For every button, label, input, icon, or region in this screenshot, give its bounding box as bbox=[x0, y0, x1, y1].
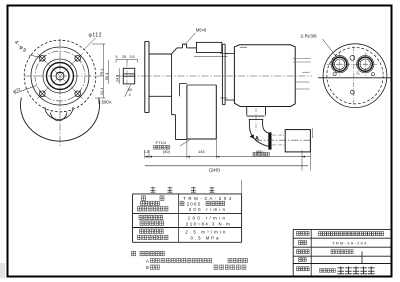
section mark A bbox=[250, 135, 255, 139]
svg-text:3.5: 3.5 bbox=[130, 55, 135, 59]
end-cap fins bbox=[293, 58, 311, 60]
exhaust label bbox=[253, 152, 256, 156]
spec table header bbox=[151, 187, 156, 192]
wire: 135deg centerline bbox=[37, 53, 83, 99]
title r3 value: date bbox=[331, 250, 335, 254]
svg-text:M5×8: M5×8 bbox=[196, 28, 207, 33]
flange outline (hidden, dashed) bbox=[24, 40, 96, 112]
svg-text:79.4: 79.4 bbox=[99, 68, 104, 76]
spec table frame bbox=[133, 193, 242, 195]
wire: 45deg centerline bbox=[37, 53, 83, 99]
body circle bbox=[31, 47, 89, 105]
table row 1 bbox=[142, 196, 146, 200]
table row 2 bbox=[141, 201, 145, 205]
svg-text:2-Rc3/8: 2-Rc3/8 bbox=[301, 34, 318, 39]
bolt centerlines bbox=[273, 134, 285, 136]
bottom boss arc outer bbox=[45, 107, 73, 119]
title block frame bbox=[293, 228, 390, 230]
small holes on chord bbox=[333, 73, 336, 76]
svg-text:(240): (240) bbox=[209, 167, 220, 172]
svg-text:1.5: 1.5 bbox=[144, 149, 149, 154]
table row 5 bbox=[140, 221, 144, 225]
svg-text:2.5 m³/min: 2.5 m³/min bbox=[185, 229, 227, 234]
wire: main horizontal centerline (side view) bbox=[117, 75, 312, 77]
title r4 divider bbox=[361, 252, 363, 264]
exhaust boss bbox=[246, 107, 248, 116]
svg-text:(40): (40) bbox=[163, 149, 171, 154]
detail leader 20 / 4 bbox=[125, 85, 131, 96]
svg-text:P.T1/4: P.T1/4 bbox=[156, 141, 166, 145]
title labels bbox=[297, 231, 301, 235]
svg-text:5: 5 bbox=[116, 55, 118, 59]
detail shaft rect bbox=[123, 68, 134, 84]
table row 6 bbox=[140, 229, 144, 233]
detail dim 59.4 bbox=[108, 60, 110, 84]
rear vertical centerline bbox=[353, 46, 355, 104]
svg-text:(85): (85) bbox=[256, 149, 264, 154]
dim line A bbox=[145, 156, 311, 158]
bolt hole 1 bbox=[40, 56, 46, 62]
svg-text:210~84.3 N·m: 210~84.3 N·m bbox=[186, 221, 231, 226]
svg-text:2065: 2065 bbox=[187, 202, 201, 207]
svg-text:25: 25 bbox=[122, 55, 126, 59]
oil case (lower rectangle) bbox=[186, 85, 188, 139]
gear case left edge bbox=[171, 54, 173, 115]
bottom boss arc inner bbox=[50, 113, 67, 121]
svg-text:0.5 MPa: 0.5 MPa bbox=[190, 236, 220, 241]
svg-text:φ112: φ112 bbox=[89, 33, 103, 39]
bottom profile steps bbox=[172, 114, 176, 116]
svg-text:4: 4 bbox=[129, 93, 131, 97]
bolt hole 2 bbox=[75, 56, 81, 62]
joint ring bbox=[221, 44, 223, 104]
top boss between ports bbox=[350, 56, 355, 61]
elbow flange top bbox=[247, 115, 265, 117]
svg-text:A: A bbox=[255, 136, 259, 142]
svg-text:.: . bbox=[325, 257, 326, 262]
svg-text:24.1: 24.1 bbox=[99, 87, 104, 95]
neck lines bbox=[225, 53, 234, 55]
detail vertical centerline bbox=[126, 62, 128, 88]
motor body outline bbox=[234, 45, 295, 107]
note line 1 bbox=[132, 251, 136, 256]
bottom small hole bbox=[351, 90, 355, 94]
gear case rear step bbox=[179, 84, 181, 97]
rear dashed circle bbox=[327, 47, 383, 103]
elbow pipe bbox=[248, 119, 250, 126]
shaft bore circle bbox=[51, 67, 69, 85]
node A: front view vertical centerline bbox=[59, 39, 61, 146]
svg-text:TRM-3A-204: TRM-3A-204 bbox=[332, 242, 367, 246]
right vertical dimension bbox=[103, 44, 105, 98]
svg-text:24.5: 24.5 bbox=[116, 75, 120, 82]
exhaust centerline bbox=[255, 139, 311, 141]
mounting flange plate edge bbox=[144, 42, 146, 113]
bolt hole 4 bbox=[75, 91, 81, 97]
rear outer circle bbox=[323, 44, 387, 108]
svg-text:B: B bbox=[146, 265, 149, 270]
elbow centerline bbox=[255, 108, 257, 130]
ext line right of muffler bbox=[312, 128, 314, 138]
bolt circle (dash-dot) bbox=[35, 51, 85, 101]
hub circle bbox=[47, 63, 74, 90]
detail key dim bracket bbox=[116, 59, 138, 61]
gear case outline (ellipse bottom) bbox=[20, 98, 99, 142]
detail dim 24.5 bbox=[118, 68, 120, 84]
bolt hole 3 bbox=[40, 91, 46, 97]
muffler bbox=[285, 130, 310, 152]
bearing housing bbox=[149, 53, 172, 55]
table row 7 bbox=[138, 235, 142, 239]
svg-text:A: A bbox=[146, 258, 149, 263]
table row 3 bbox=[138, 207, 142, 211]
svg-text:59.4: 59.4 bbox=[105, 73, 109, 80]
detail key lines bbox=[123, 73, 134, 75]
svg-text:5.590A: 5.590A bbox=[98, 100, 112, 105]
svg-text:143: 143 bbox=[198, 149, 205, 154]
port 1 bbox=[331, 56, 348, 73]
label phi72 leader bbox=[15, 85, 37, 93]
title r1 value: rotary vane air motor bbox=[319, 232, 323, 236]
top box bbox=[197, 42, 222, 52]
pilot circle bbox=[43, 59, 77, 93]
table row 4 bbox=[139, 215, 143, 219]
outlet flange (filled bar) bbox=[268, 132, 271, 149]
svg-text:20: 20 bbox=[128, 88, 132, 92]
tiny marks bbox=[356, 71, 359, 73]
mounting face chord bbox=[318, 77, 391, 79]
wire: main horizontal centerline (left view) bbox=[24, 75, 104, 77]
shaft circle bbox=[56, 72, 64, 80]
gear case top chamfer bbox=[172, 48, 177, 54]
title r5 value: company bbox=[320, 269, 323, 273]
svg-text:TRM-3A-204: TRM-3A-204 bbox=[183, 196, 234, 201]
scan smudge bottom-left bbox=[0, 263, 5, 278]
svg-text:200 r/min: 200 r/min bbox=[189, 207, 228, 212]
svg-text:100 r/min: 100 r/min bbox=[188, 216, 228, 221]
port centerline horizontal bbox=[327, 63, 379, 65]
port 2 bbox=[357, 56, 374, 73]
ext lines bbox=[144, 150, 146, 159]
dim line B overall bbox=[145, 165, 308, 167]
top nub bbox=[182, 44, 184, 48]
